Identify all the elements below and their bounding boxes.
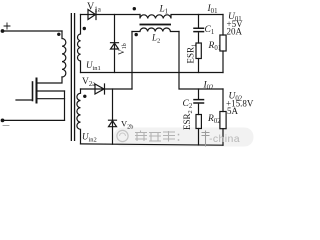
capacitor C1 plates: [194, 28, 204, 31]
transformer secondary 1 winding: [78, 15, 81, 73]
wire source to bottom rail: [64, 91, 66, 120]
transformer secondary 2 winding: [77, 89, 81, 144]
resistor R01 branch: [222, 15, 224, 73]
L2 polarity dot: [135, 33, 138, 36]
resistor R02: [220, 112, 226, 129]
watermark box: [114, 128, 254, 147]
diode V1b: [111, 43, 119, 49]
transistor Q1 channel bar: [36, 79, 38, 103]
diode V1b branch wire: [114, 15, 116, 73]
transistor Q1 gate lead: [16, 99, 33, 101]
wire input top: [3, 30, 63, 32]
watermark logo ring: [117, 130, 128, 141]
transformer core: [71, 13, 72, 141]
svg-text:-china: -china: [209, 133, 240, 145]
coupled inductor L2: [132, 28, 179, 32]
primary polarity dot: [57, 33, 60, 36]
inductor core bar: [140, 24, 172, 26]
transistor Q1 body lead: [37, 90, 65, 92]
svg-text:20A: 20A: [227, 27, 243, 37]
resistor ESR1: [196, 43, 201, 59]
transformer primary winding: [62, 31, 66, 77]
coupled inductor L1: [140, 15, 223, 19]
wire ESR1 to rail: [198, 59, 200, 73]
capacitor C1 branch: [198, 15, 200, 44]
resistor R02 branch: [222, 89, 224, 145]
diode V2a: [81, 84, 133, 94]
output 1 return rail: [81, 72, 224, 74]
wire input bottom rail: [3, 119, 65, 121]
resistor R01: [220, 35, 226, 51]
output 2 return rail: [81, 144, 224, 145]
capacitor C2 branch: [198, 89, 200, 115]
input minus terminal: [1, 119, 5, 123]
diode V1a: [81, 10, 141, 20]
input plus terminal: [1, 29, 5, 33]
transistor Q1 drain lead: [37, 77, 63, 83]
L1 polarity dot: [133, 7, 136, 10]
wire L2 right down: [179, 32, 223, 90]
diode V2b: [109, 120, 117, 127]
svg-text:5A: 5A: [227, 106, 239, 116]
watermark CJK glyph blobs: [135, 131, 210, 147]
capacitor C2 plates: [194, 100, 204, 103]
transistor Q1 gate bar: [32, 82, 34, 101]
transistor Q1 source lead: [37, 98, 65, 100]
resistor ESR2: [196, 115, 201, 129]
wire node B up to L2 left: [131, 32, 133, 90]
wire ESR2 to rail: [198, 129, 200, 146]
diode V2b branch wire: [112, 89, 114, 144]
secondary 1 polarity dot: [83, 27, 86, 30]
secondary 2 polarity dot: [83, 95, 86, 98]
